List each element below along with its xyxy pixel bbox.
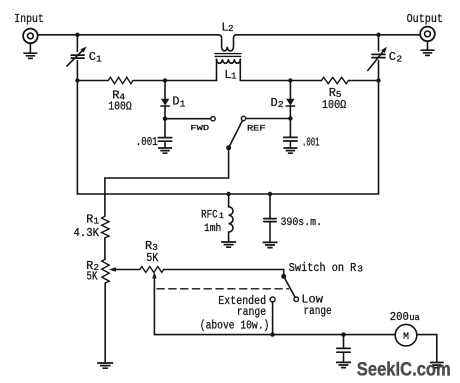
svg-text:C: C <box>389 50 396 64</box>
svg-text:4.3K: 4.3K <box>74 226 100 240</box>
svg-text:.001: .001 <box>302 135 320 149</box>
svg-text:Output: Output <box>407 13 443 26</box>
svg-text:100Ω: 100Ω <box>322 98 346 112</box>
svg-text:M: M <box>403 332 409 343</box>
svg-text:1: 1 <box>93 216 99 227</box>
svg-text:range: range <box>304 304 332 318</box>
svg-text:100Ω: 100Ω <box>108 99 131 113</box>
svg-text:1: 1 <box>231 71 237 82</box>
svg-text:D: D <box>271 96 278 110</box>
svg-text:390s.m.: 390s.m. <box>281 217 323 229</box>
svg-text:2: 2 <box>396 54 402 65</box>
svg-text:1mh: 1mh <box>204 223 221 235</box>
svg-text:.001: .001 <box>136 135 158 149</box>
svg-text:2: 2 <box>228 23 234 34</box>
svg-text:D: D <box>172 95 179 109</box>
svg-text:ua: ua <box>409 312 420 323</box>
svg-text:FWD: FWD <box>190 125 209 133</box>
svg-text:1: 1 <box>219 212 224 221</box>
svg-text:Input: Input <box>14 13 44 26</box>
svg-text:200: 200 <box>390 310 409 324</box>
svg-text:C: C <box>89 50 96 64</box>
svg-text:1: 1 <box>96 53 102 64</box>
svg-text:3: 3 <box>357 264 363 275</box>
svg-text:SeekIC.com: SeekIC.com <box>357 358 451 380</box>
svg-text:2: 2 <box>278 99 284 110</box>
svg-text:range: range <box>237 305 266 319</box>
svg-text:5K: 5K <box>87 269 99 283</box>
svg-text:R: R <box>86 213 93 227</box>
svg-text:REF: REF <box>247 124 266 134</box>
svg-text:5K: 5K <box>146 251 159 265</box>
svg-text:1: 1 <box>180 98 186 109</box>
svg-text:Switch on R: Switch on R <box>289 261 357 275</box>
svg-text:RFC: RFC <box>201 210 218 222</box>
svg-text:(above 10w.): (above 10w.) <box>200 319 269 333</box>
